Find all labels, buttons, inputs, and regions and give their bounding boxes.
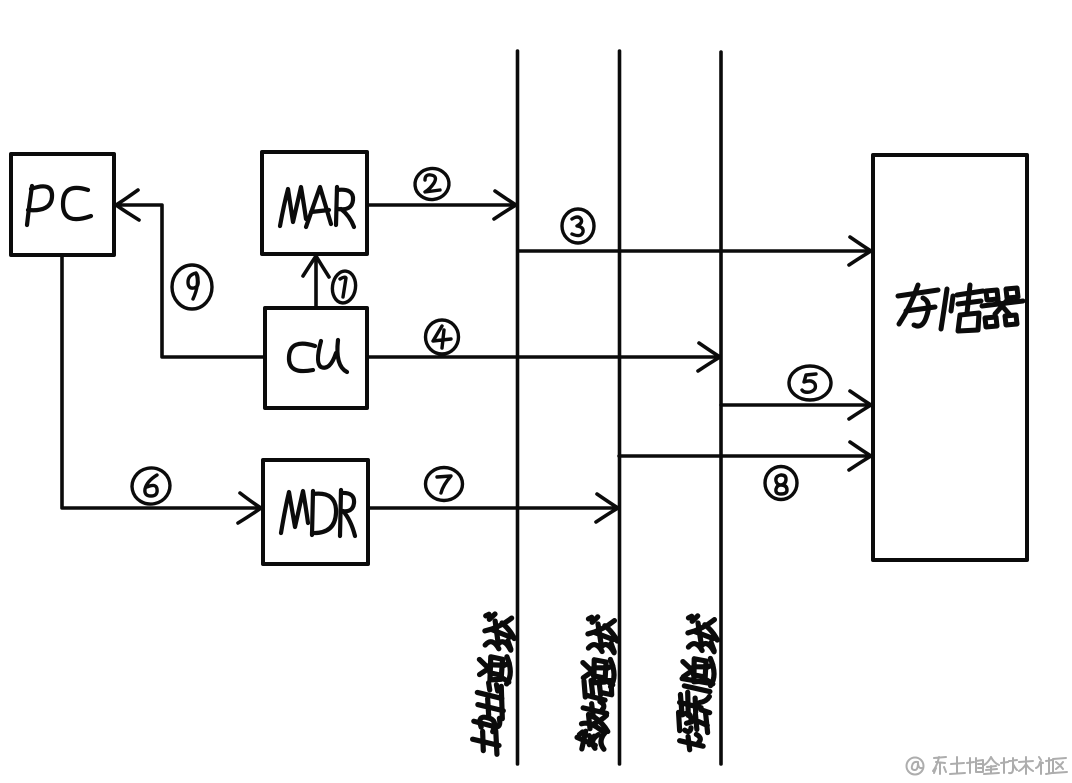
node label 5 (circled) [789,366,831,400]
wire CU to PC (arrow 9) [116,190,265,357]
box MAR [262,152,367,254]
wire MAR to address bus (arrow 2) [368,191,516,219]
node label 4 (circled) [426,320,459,354]
wire control bus line [719,52,723,764]
wire CU to MAR (arrow 1) [303,256,329,308]
net label control bus 控制总线 (rotated) [674,615,720,752]
label PC text [27,186,91,225]
box MDR [263,460,368,564]
label MDR text [281,490,355,536]
box memory [873,155,1027,560]
node label 8 (circled) [765,467,797,500]
wire PC to MDR (arrow 6) [62,255,261,523]
label memory text 存储器 [898,285,1023,331]
box CU [265,308,367,408]
net label data bus 数据总线 (rotated) [574,616,620,752]
node label 3 (circled) [562,209,594,243]
box PC [11,154,114,255]
label MAR text [280,187,354,227]
node label 2 (circled) [413,167,450,201]
wire address bus line [516,51,520,764]
node label 7 (circled) [426,468,463,501]
node label 1 (circled) [330,270,357,305]
wire data bus to memory (arrow 8) [619,442,871,470]
label CU text [289,340,347,372]
net label address bus 地址总线 (rotated) [468,613,517,755]
wire CU to control bus (arrow 4) [367,343,720,371]
wire data bus line [618,51,622,764]
watermark @稀土掘金技术社区 [907,757,1068,775]
node label 9 (circled) [172,265,212,309]
wire control bus to memory (arrow 5) [721,391,871,419]
node label 6 (circled) [129,464,174,507]
wire address bus to memory (arrow 3) [518,237,871,265]
wire MDR to data bus (arrow 7) [368,494,618,522]
